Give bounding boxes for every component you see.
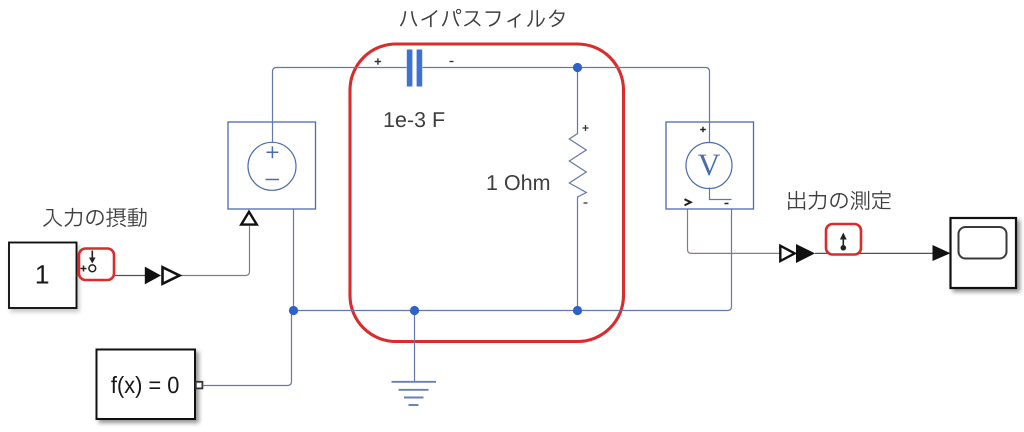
voltage source circle	[248, 142, 296, 190]
voltmeter plus label	[700, 127, 706, 133]
block: constant "1"	[9, 243, 77, 309]
voltmeter circle	[686, 143, 732, 189]
wire: constant to gain (signal)	[77, 275, 146, 277]
ground symbol	[392, 382, 437, 405]
block: voltmeter	[666, 122, 754, 209]
voltmeter internal bottom wire	[710, 188, 732, 200]
marker: input perturbation (red box)	[79, 249, 114, 281]
wire: resistor branch	[569, 68, 586, 311]
capacitor C plates 1e-3 F	[407, 50, 413, 87]
label: ハイパスフィルタ (title)	[400, 9, 565, 28]
voltmeter V glyph	[698, 155, 720, 176]
block: controlled voltage source	[228, 122, 316, 209]
port square of f(x)=0	[196, 382, 203, 389]
gain/conversion triangles after constant	[145, 267, 161, 285]
output marker node dot	[841, 245, 847, 251]
annotation box: high-pass filter boundary	[350, 44, 624, 342]
voltage source minus sign	[266, 179, 280, 181]
block: scope	[951, 218, 1017, 288]
marker: output measurement (red box)	[826, 224, 861, 255]
wire: gain to voltage source input (signal)	[181, 226, 250, 276]
output marker arrow up	[842, 239, 844, 248]
voltage source plus sign	[267, 146, 279, 158]
voltmeter arrow label	[685, 199, 691, 205]
wire: source top riser and left top rail	[273, 68, 407, 123]
wire: f(x)=0 to bottom rail	[203, 311, 292, 386]
capacitor minus polarity	[450, 61, 454, 63]
voltage source signal port triangle	[241, 212, 257, 225]
wire: ground stem	[414, 311, 416, 382]
wire: voltmeter output down and right (signal)	[688, 210, 781, 254]
wire: bottom rail and voltmeter return riser	[294, 209, 732, 311]
capacitor value label	[385, 112, 445, 127]
junction node: source return	[289, 306, 298, 315]
input marker plus	[81, 266, 87, 272]
wire: voltage source bottom drop	[293, 209, 295, 311]
conversion triangles after voltmeter	[780, 246, 794, 261]
resistor plus polarity	[583, 125, 589, 131]
voltmeter internal top stub	[709, 122, 711, 143]
resistor minus polarity	[584, 202, 588, 204]
voltage source internal top stub	[272, 122, 274, 143]
input marker node circle	[89, 265, 96, 272]
label: 出力の測定	[788, 191, 891, 210]
voltmeter minus label	[725, 203, 729, 205]
scope screen	[959, 227, 1007, 259]
scope input port triangle	[933, 245, 951, 261]
capacitor plus polarity	[375, 58, 381, 64]
resistor value label	[488, 174, 549, 190]
label: 入力の摂動	[43, 208, 146, 227]
block: algebraic constraint f(x)=0	[97, 350, 196, 420]
input marker arrow into node	[91, 251, 93, 259]
wire: converter to scope (signal)	[815, 252, 933, 254]
junction node: resistor return	[573, 306, 582, 315]
junction node: ground tap	[410, 306, 419, 315]
wire: top rail right and voltmeter riser	[423, 68, 710, 123]
junction node: capacitor-resistor	[573, 63, 582, 72]
